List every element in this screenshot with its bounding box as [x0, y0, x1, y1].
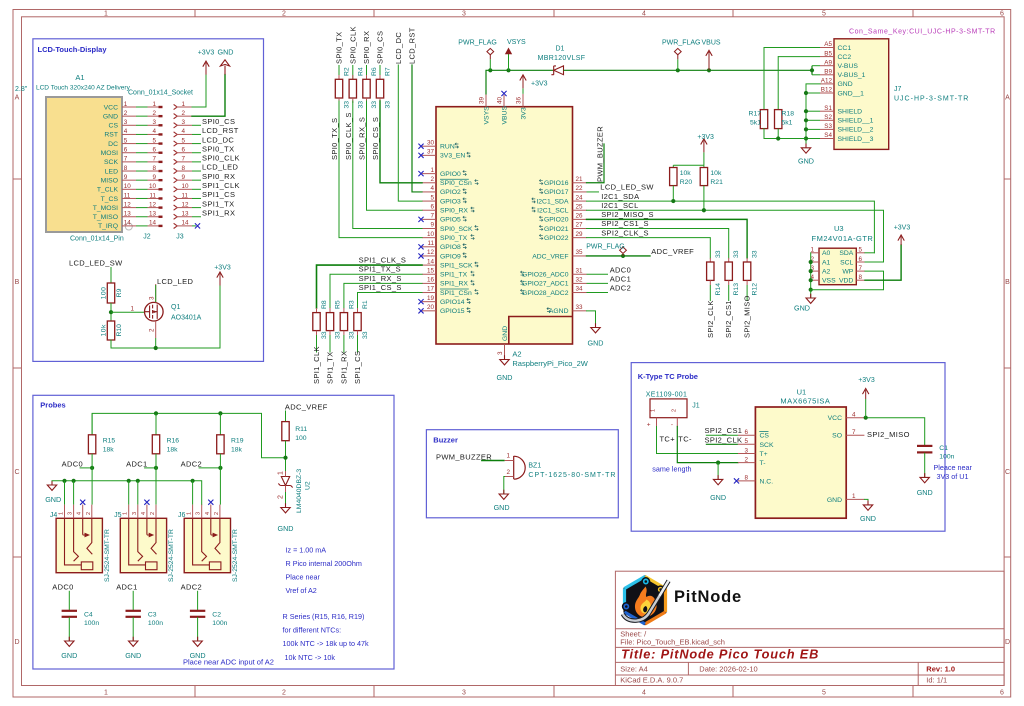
power GND (C4) — [68, 637, 70, 641]
svg-text:SPI1_RX_S: SPI1_RX_S — [359, 274, 402, 283]
svg-text:A5: A5 — [824, 41, 832, 48]
J3 pin 3 — [174, 123, 178, 128]
svg-text:J4: J4 — [50, 512, 58, 519]
A2 pin 20 GPIO15 — [422, 310, 436, 312]
U3 pin 2 A1 — [811, 261, 819, 263]
svg-text:7: 7 — [124, 156, 128, 163]
svg-text:SPI0_SCK: SPI0_SCK — [440, 226, 473, 233]
wire A1-14 to J2 — [136, 225, 148, 227]
svg-text:11: 11 — [149, 192, 156, 199]
svg-text:5: 5 — [859, 247, 863, 254]
svg-text:J3: J3 — [176, 234, 184, 241]
A2 pin 29 GPIO22 — [573, 237, 587, 239]
wire SPI0_CLK_S — [353, 101, 422, 229]
wire LCD_LED_SW to R9 — [110, 267, 112, 283]
svg-text:2: 2 — [150, 512, 156, 515]
resistor R1 — [357, 308, 359, 313]
svg-text:GPIO2: GPIO2 — [440, 189, 461, 196]
wire C4 to GND — [68, 617, 70, 640]
svg-text:Con_Same_Key:CUI_UJC-HP-3-SMT-: Con_Same_Key:CUI_UJC-HP-3-SMT-TR — [849, 29, 996, 36]
svg-text:3: 3 — [462, 690, 466, 697]
U1 pin 2 T- — [738, 462, 756, 464]
svg-text:5: 5 — [822, 11, 826, 18]
svg-text:SPI1_RX: SPI1_RX — [339, 351, 348, 384]
wire A1-7 to J2 — [136, 161, 148, 163]
svg-text:LED: LED — [105, 168, 118, 175]
svg-text:U3: U3 — [834, 224, 844, 233]
svg-text:SPI0_CLK_S: SPI0_CLK_S — [344, 112, 353, 160]
svg-text:R8: R8 — [321, 300, 328, 309]
no-connect U1 NC — [734, 478, 739, 483]
svg-text:GND: GND — [497, 373, 513, 382]
A2 pin 2 SPI0_CSn — [422, 182, 436, 184]
svg-text:GND: GND — [218, 48, 234, 57]
svg-text:GPIO16: GPIO16 — [544, 180, 569, 187]
svg-text:R Pico internal 200Ohm: R Pico internal 200Ohm — [286, 559, 362, 568]
svg-text:C: C — [1005, 469, 1010, 476]
svg-text:1: 1 — [124, 101, 128, 108]
J3 pin 8 — [174, 168, 178, 173]
net label SPI0_CS — [192, 124, 201, 126]
connector J6 SJ-2524-SMT-TR — [184, 518, 230, 572]
net label LCD_RST — [192, 133, 201, 135]
svg-text:11: 11 — [182, 192, 189, 199]
svg-text:MISO: MISO — [101, 177, 118, 184]
svg-text:2: 2 — [278, 495, 285, 499]
svg-text:VDD: VDD — [839, 278, 853, 285]
transistor Q1 AO3401A — [145, 302, 164, 321]
svg-text:GPIO8: GPIO8 — [440, 244, 461, 251]
A2 pin 31 GPIO26_ADC0 — [573, 273, 587, 275]
svg-text:3V3 of U1: 3V3 of U1 — [937, 472, 969, 481]
svg-text:12: 12 — [182, 201, 190, 208]
svg-text:2: 2 — [282, 690, 286, 697]
svg-text:S3: S3 — [824, 123, 832, 130]
net label SPI1_RX — [192, 216, 201, 218]
wire U2 to GND — [285, 492, 287, 507]
svg-text:3: 3 — [182, 119, 186, 126]
svg-text:LCD_LED_SW: LCD_LED_SW — [69, 259, 123, 268]
J6 jack internals — [193, 518, 210, 565]
svg-text:C4: C4 — [84, 611, 93, 618]
svg-text:PWR_FLAG: PWR_FLAG — [458, 40, 497, 47]
svg-text:ADC_VREF: ADC_VREF — [651, 247, 694, 256]
svg-text:SPI0_CS_S: SPI0_CS_S — [371, 117, 380, 160]
U1 pin 5 SCK — [738, 443, 756, 445]
svg-text:GPIO21: GPIO21 — [544, 226, 569, 233]
svg-text:1: 1 — [430, 167, 434, 174]
power GND (U2) — [285, 503, 287, 507]
svg-text:3: 3 — [124, 119, 128, 126]
svg-text:AO3401A: AO3401A — [171, 315, 202, 322]
wire gate to Q1 — [111, 311, 145, 313]
J3 pin 9 — [174, 178, 178, 183]
svg-text:LM4040DBZ-3: LM4040DBZ-3 — [296, 469, 303, 513]
net label SPI0_CLK — [192, 161, 201, 163]
svg-text:SJ-2524-SMT-TR: SJ-2524-SMT-TR — [104, 529, 111, 582]
A2 pin 40 VBUS — [503, 95, 505, 107]
A2 pin 33 AGND wire to GND — [587, 311, 596, 327]
J3 pin 2 — [174, 114, 178, 119]
J7 pin B9 V-BUS_1 — [820, 74, 834, 76]
wire A1-13 to J2 — [136, 216, 148, 218]
svg-text:S2: S2 — [824, 114, 832, 121]
svg-text:+3V3: +3V3 — [198, 50, 215, 57]
power flag PWR_FLAG (VSYS) — [488, 68, 492, 72]
J3 pin 12 — [174, 205, 178, 210]
svg-text:Size: A4: Size: A4 — [620, 665, 648, 674]
wire R16 down — [155, 454, 157, 505]
power GND under A2 — [504, 355, 506, 359]
svg-text:A: A — [15, 95, 20, 102]
title block frame — [615, 571, 1004, 685]
resistor R18 5k1 — [777, 57, 779, 110]
net label LCD_DC — [192, 143, 201, 145]
svg-text:21: 21 — [576, 176, 584, 183]
svg-text:R6: R6 — [371, 67, 378, 76]
svg-text:4: 4 — [205, 512, 211, 515]
svg-text:SPI1_CLK: SPI1_CLK — [202, 181, 240, 190]
A2 pin 37 3V3_EN — [422, 154, 436, 156]
zener U2 LM4040DBZ-3 — [281, 477, 289, 486]
J7 pin S2 SHIELD__1 — [820, 119, 834, 121]
resistor R9 — [107, 283, 114, 303]
J5 no-connect pin4 — [144, 500, 149, 505]
svg-text:13: 13 — [124, 211, 132, 218]
svg-text:3: 3 — [497, 351, 504, 355]
A2 pin 17 SPI1_CSn — [422, 292, 436, 294]
wire A1-12 to J2 — [136, 207, 148, 209]
svg-text:7: 7 — [430, 213, 434, 220]
wire C2 to GND — [197, 617, 199, 640]
svg-text:10: 10 — [427, 231, 435, 238]
svg-text:D1: D1 — [556, 46, 565, 53]
sheet box LCD-Touch-Display — [33, 39, 264, 362]
svg-text:R4: R4 — [357, 67, 364, 76]
svg-text:SHIELD__2: SHIELD__2 — [838, 127, 874, 134]
J3 pin 13 — [174, 214, 178, 219]
svg-text:4: 4 — [182, 128, 186, 135]
svg-text:LCD_LED_SW: LCD_LED_SW — [600, 183, 654, 192]
svg-text:9: 9 — [182, 174, 186, 181]
svg-text:ADC1: ADC1 — [126, 460, 147, 469]
svg-text:J2: J2 — [143, 234, 151, 241]
A2 pin 1 GPIO0 — [422, 173, 436, 175]
wire BZ1 to GND — [503, 477, 506, 494]
svg-text:A2: A2 — [512, 350, 521, 359]
wire A1-1 to J2 — [136, 106, 148, 108]
power GND (U3) — [810, 294, 812, 298]
U1 pin 6 CS — [738, 434, 756, 436]
wire A1-2 to J2 — [136, 115, 148, 117]
A2 pin 35 ADC_VREF — [573, 255, 587, 257]
A2 pin 39 VSYS — [485, 94, 487, 107]
J2 pin 11 — [148, 197, 163, 199]
svg-text:R7: R7 — [385, 67, 392, 76]
svg-text:VBUS: VBUS — [702, 40, 721, 47]
net label SPI0_TX — [192, 152, 201, 154]
svg-text:A: A — [1005, 95, 1010, 102]
svg-text:C2: C2 — [212, 611, 221, 618]
svg-text:+: + — [647, 422, 651, 429]
power GND (C1) — [924, 473, 926, 477]
net label PWM_BUZZER (vertical) — [587, 144, 605, 183]
wire SPI0_CS to R7 — [379, 65, 381, 79]
svg-text:B9: B9 — [824, 69, 832, 76]
wire R18 bottom — [777, 129, 779, 139]
U1 pin 3 T+ — [738, 453, 756, 455]
J3 pin 6 — [174, 150, 178, 155]
U3 pin 1 A0 — [811, 252, 819, 254]
resistor R4 — [352, 75, 354, 79]
svg-text:-: - — [671, 422, 673, 429]
wire U3 SDA riser — [865, 252, 874, 254]
svg-text:14: 14 — [182, 220, 190, 227]
svg-text:33: 33 — [321, 331, 328, 339]
svg-text:Iz = 1.00 mA: Iz = 1.00 mA — [286, 545, 327, 554]
svg-text:33: 33 — [362, 331, 369, 339]
svg-text:SHIELD__1: SHIELD__1 — [838, 118, 874, 125]
J2 pin 4 — [148, 133, 163, 135]
J2 pin 12 — [148, 207, 163, 209]
wire A1-10 to J2 — [136, 188, 148, 190]
svg-text:SPI0_RX_S: SPI0_RX_S — [358, 117, 367, 160]
power VSYS arrow — [506, 68, 510, 72]
svg-text:SPI0_TX_S: SPI0_TX_S — [330, 118, 339, 160]
svg-text:MOSI: MOSI — [101, 150, 118, 157]
svg-text:10: 10 — [149, 183, 157, 190]
U3 pin 4 VSS — [811, 279, 819, 281]
power +3V3 (LCD) — [205, 63, 207, 75]
svg-text:4: 4 — [124, 128, 128, 135]
wire U1 VCC to +3V3 and C1 — [864, 418, 924, 446]
wire C3 to GND — [132, 617, 134, 640]
svg-text:SPI0_TX: SPI0_TX — [335, 32, 344, 64]
svg-text:39: 39 — [479, 96, 486, 104]
svg-text:B12: B12 — [821, 87, 833, 94]
svg-text:ADC0: ADC0 — [62, 460, 83, 469]
svg-text:GPIO28_ADC2: GPIO28_ADC2 — [522, 290, 569, 297]
svg-text:VSYS: VSYS — [484, 106, 491, 125]
svg-text:32: 32 — [576, 277, 584, 284]
svg-text:C: C — [14, 469, 19, 476]
svg-text:SDA: SDA — [839, 250, 853, 257]
svg-text:SPI1_CS: SPI1_CS — [353, 351, 362, 384]
resistor R3 — [343, 308, 345, 313]
svg-text:GPIO3: GPIO3 — [440, 198, 461, 205]
svg-text:GND: GND — [917, 488, 933, 497]
J7 pin A12 GND — [820, 83, 834, 85]
connector J7 UJC-HP-3-SMT-TR body — [834, 39, 889, 150]
svg-text:GPIO0: GPIO0 — [440, 171, 461, 178]
svg-text:SPI1_CLK: SPI1_CLK — [312, 346, 321, 384]
svg-text:CS: CS — [109, 123, 119, 130]
svg-text:TC+: TC+ — [660, 434, 676, 443]
svg-text:2: 2 — [86, 512, 92, 515]
wire TC+ to U1 T+ — [657, 427, 738, 454]
svg-text:9: 9 — [430, 222, 434, 229]
wire R14 to SPI2_CLK — [709, 285, 711, 301]
wire Q1 source to rail — [155, 338, 157, 348]
svg-text:14: 14 — [124, 220, 132, 227]
power VBUS arrow — [707, 68, 711, 72]
A2 pin 30 RUN — [422, 145, 436, 147]
net label SPI0_RX — [192, 179, 201, 181]
svg-text:R1: R1 — [362, 300, 369, 309]
svg-text:2: 2 — [182, 110, 186, 117]
wire R21 to SCL — [703, 186, 705, 211]
svg-text:Date: 2026-02-10: Date: 2026-02-10 — [699, 665, 757, 674]
svg-text:2: 2 — [149, 328, 156, 332]
svg-text:1: 1 — [651, 409, 657, 412]
resistor R7 — [379, 75, 381, 79]
svg-text:1: 1 — [852, 493, 856, 500]
svg-text:4: 4 — [642, 11, 646, 18]
svg-text:16: 16 — [427, 277, 435, 284]
wire SPI1_TX_S — [330, 274, 422, 308]
wire R11 bottom — [285, 441, 287, 471]
A2 pin 32 GPIO27_ADC1 — [573, 282, 587, 284]
A2 pin 3 GND bottom — [504, 344, 506, 359]
svg-text:File: Pico_Touch_EB.kicad_sch: File: Pico_Touch_EB.kicad_sch — [620, 637, 725, 646]
wire SPI0_TX_S — [339, 101, 422, 238]
svg-text:SPI2_CS1: SPI2_CS1 — [705, 426, 743, 435]
svg-text:GPIO27_ADC1: GPIO27_ADC1 — [522, 281, 569, 288]
svg-text:GND: GND — [494, 503, 510, 512]
svg-text:SPI2_MISO: SPI2_MISO — [743, 295, 752, 338]
svg-text:+3V3: +3V3 — [697, 134, 714, 141]
svg-text:WP: WP — [842, 268, 853, 275]
svg-text:Rev: 1.0: Rev: 1.0 — [926, 665, 955, 674]
power GND (probes bus) — [51, 481, 53, 485]
logo PitNode — [623, 577, 669, 625]
svg-text:R3: R3 — [348, 300, 355, 309]
svg-text:7: 7 — [152, 156, 156, 163]
svg-text:29: 29 — [576, 231, 584, 238]
J2 pin 7 — [148, 161, 163, 163]
J4 no-connect pin4 — [80, 500, 85, 505]
J3 pin 1 — [174, 104, 178, 109]
svg-text:V-BUS_1: V-BUS_1 — [838, 72, 866, 79]
wire D1 to VBUS rail — [564, 69, 813, 71]
svg-text:1: 1 — [187, 512, 193, 515]
svg-text:3: 3 — [744, 447, 748, 454]
svg-text:33: 33 — [371, 101, 378, 109]
wire U1 GND pin to GND — [864, 499, 868, 504]
svg-text:2.8": 2.8" — [15, 86, 28, 93]
J5 jack internals — [129, 518, 146, 565]
svg-text:4: 4 — [852, 412, 856, 419]
svg-text:3: 3 — [149, 296, 156, 300]
MCU A2 RaspberryPi_Pico_2W body — [436, 107, 573, 344]
connector J5 SJ-2524-SMT-TR — [120, 518, 166, 572]
svg-text:6: 6 — [1000, 690, 1004, 697]
svg-text:5: 5 — [744, 438, 748, 445]
net label ADC1 (pico) — [587, 282, 609, 284]
U1 pin 1 GND — [846, 498, 864, 500]
svg-text:LCD Touch 320x240 AZ Delivery: LCD Touch 320x240 AZ Delivery — [36, 85, 131, 92]
svg-text:3V3_EN: 3V3_EN — [440, 153, 465, 160]
U3 pin 7 WP — [856, 270, 865, 272]
svg-text:3: 3 — [68, 512, 74, 515]
svg-text:8: 8 — [744, 475, 748, 482]
U3 pin 8 VDD — [856, 279, 865, 281]
svg-text:2: 2 — [672, 409, 678, 412]
resistor R11 100 — [282, 422, 289, 441]
A2 pin 6 SPI0_RX — [422, 209, 436, 211]
svg-text:+3V3: +3V3 — [858, 377, 875, 384]
J2 pin 5 — [148, 143, 163, 145]
J3 pin 5 — [174, 141, 178, 146]
svg-text:GPIO5: GPIO5 — [440, 217, 461, 224]
svg-text:2: 2 — [152, 110, 156, 117]
svg-text:SPI1_TX: SPI1_TX — [440, 272, 468, 279]
svg-text:GND: GND — [103, 113, 118, 120]
power GND (C3) — [132, 637, 134, 641]
svg-text:T_IRQ: T_IRQ — [98, 223, 118, 230]
svg-text:36: 36 — [516, 96, 523, 104]
svg-text:LCD_RST: LCD_RST — [202, 126, 239, 135]
svg-text:9: 9 — [124, 174, 128, 181]
A2 pin 25 I2C1_SCL — [573, 209, 587, 211]
net label SPI1_CS — [192, 197, 201, 199]
svg-text:FM24V01A-GTR: FM24V01A-GTR — [812, 234, 874, 243]
J2 pin 3 — [148, 124, 163, 126]
svg-text:SCK: SCK — [760, 442, 774, 449]
svg-text:1: 1 — [278, 471, 285, 475]
resistor R19 18k — [219, 413, 221, 434]
svg-text:2: 2 — [282, 11, 286, 18]
capacitor C4 100n — [68, 591, 70, 610]
svg-text:A0: A0 — [822, 250, 831, 257]
svg-text:R Series (R15, R16, R19): R Series (R15, R16, R19) — [283, 612, 365, 621]
svg-text:ADC0: ADC0 — [610, 265, 631, 274]
power GND (C2) — [197, 637, 199, 641]
J7 pin A9 V-BUS — [820, 65, 834, 67]
svg-text:A2: A2 — [822, 268, 831, 275]
svg-text:GND: GND — [794, 303, 810, 312]
svg-text:ADC_VREF: ADC_VREF — [532, 253, 568, 260]
svg-text:R16: R16 — [167, 438, 180, 445]
svg-text:SPI0_CLK: SPI0_CLK — [348, 26, 357, 64]
svg-text:R21: R21 — [710, 179, 723, 186]
resistor R6 — [366, 75, 368, 79]
svg-text:100k NTC -> 18k up to 47k: 100k NTC -> 18k up to 47k — [283, 639, 370, 648]
svg-text:ADC_VREF: ADC_VREF — [285, 403, 328, 412]
resistor R14 — [709, 258, 711, 262]
svg-text:CC1: CC1 — [838, 45, 852, 52]
svg-text:9: 9 — [152, 174, 156, 181]
wire vref bus — [92, 413, 285, 457]
svg-text:SPI1_CS: SPI1_CS — [202, 190, 235, 199]
svg-text:SPI1_RX: SPI1_RX — [440, 281, 468, 288]
svg-text:6: 6 — [124, 147, 128, 154]
wire R1 to label — [357, 335, 359, 353]
wire R8 to label — [316, 335, 318, 353]
svg-text:R11: R11 — [295, 426, 307, 433]
svg-text:13: 13 — [149, 211, 157, 218]
svg-text:XE1109-001: XE1109-001 — [646, 392, 687, 399]
svg-text:SPI0_CLK: SPI0_CLK — [202, 154, 240, 163]
J3 pin 10 — [174, 187, 178, 192]
power GND (J7) — [805, 144, 807, 148]
svg-text:D: D — [14, 639, 19, 646]
svg-text:U2: U2 — [305, 481, 312, 490]
svg-text:N.C.: N.C. — [760, 478, 774, 485]
wire A1-4 to J2 — [136, 133, 148, 135]
power flag PWR_FLAG (VBUS) — [676, 68, 680, 72]
svg-text:SCL: SCL — [840, 259, 853, 266]
